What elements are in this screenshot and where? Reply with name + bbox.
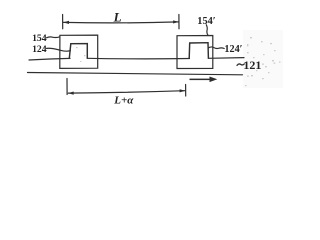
coating 154 outer rectangle (left block) xyxy=(60,35,98,68)
leader line for label 124' xyxy=(208,47,224,49)
dimension L: right arrowhead xyxy=(173,20,179,23)
leader line for label 124 xyxy=(47,48,71,51)
svg-text:L+α: L+α xyxy=(113,94,134,106)
dimension L+a: right witness line xyxy=(185,85,187,97)
svg-text:121: 121 xyxy=(243,58,261,72)
dimension L: dimension line xyxy=(64,21,179,24)
dimension L: left arrowhead xyxy=(63,21,69,24)
layer 121 bottom line xyxy=(28,73,243,75)
layer 121 top surface line (left segment) xyxy=(29,58,70,60)
leader line for label 154' xyxy=(206,25,208,35)
svg-text:154′: 154′ xyxy=(197,16,215,27)
svg-text:124: 124 xyxy=(32,44,47,55)
layer 121 top surface line (middle segment) xyxy=(87,57,189,60)
transport direction arrow (head) xyxy=(210,77,218,83)
dimension L+a: right arrowhead xyxy=(180,89,186,92)
dimension L+a: left witness line xyxy=(66,79,68,95)
svg-text:L: L xyxy=(113,10,122,25)
dimension L: left witness line xyxy=(62,15,64,29)
transport direction arrow (shaft) xyxy=(190,79,211,81)
svg-text:124′: 124′ xyxy=(224,44,242,55)
svg-text:154: 154 xyxy=(32,33,47,44)
bump 124 (left block inner shape) xyxy=(69,44,87,59)
tilde of label ~121 xyxy=(237,64,244,66)
dimension L: right witness line xyxy=(178,15,180,29)
dimension L+a: dimension line xyxy=(68,91,185,93)
dimension L+a: left arrowhead xyxy=(68,92,74,95)
scan noise dots xyxy=(250,37,252,38)
faint scan wash (right margin) xyxy=(243,30,283,88)
layer 121 top surface line (right segment) xyxy=(208,57,244,60)
bump 124' (right block inner shape) xyxy=(189,43,208,59)
leader line for label 154 xyxy=(47,36,60,39)
coating 154' outer rectangle (right block) xyxy=(177,36,213,69)
